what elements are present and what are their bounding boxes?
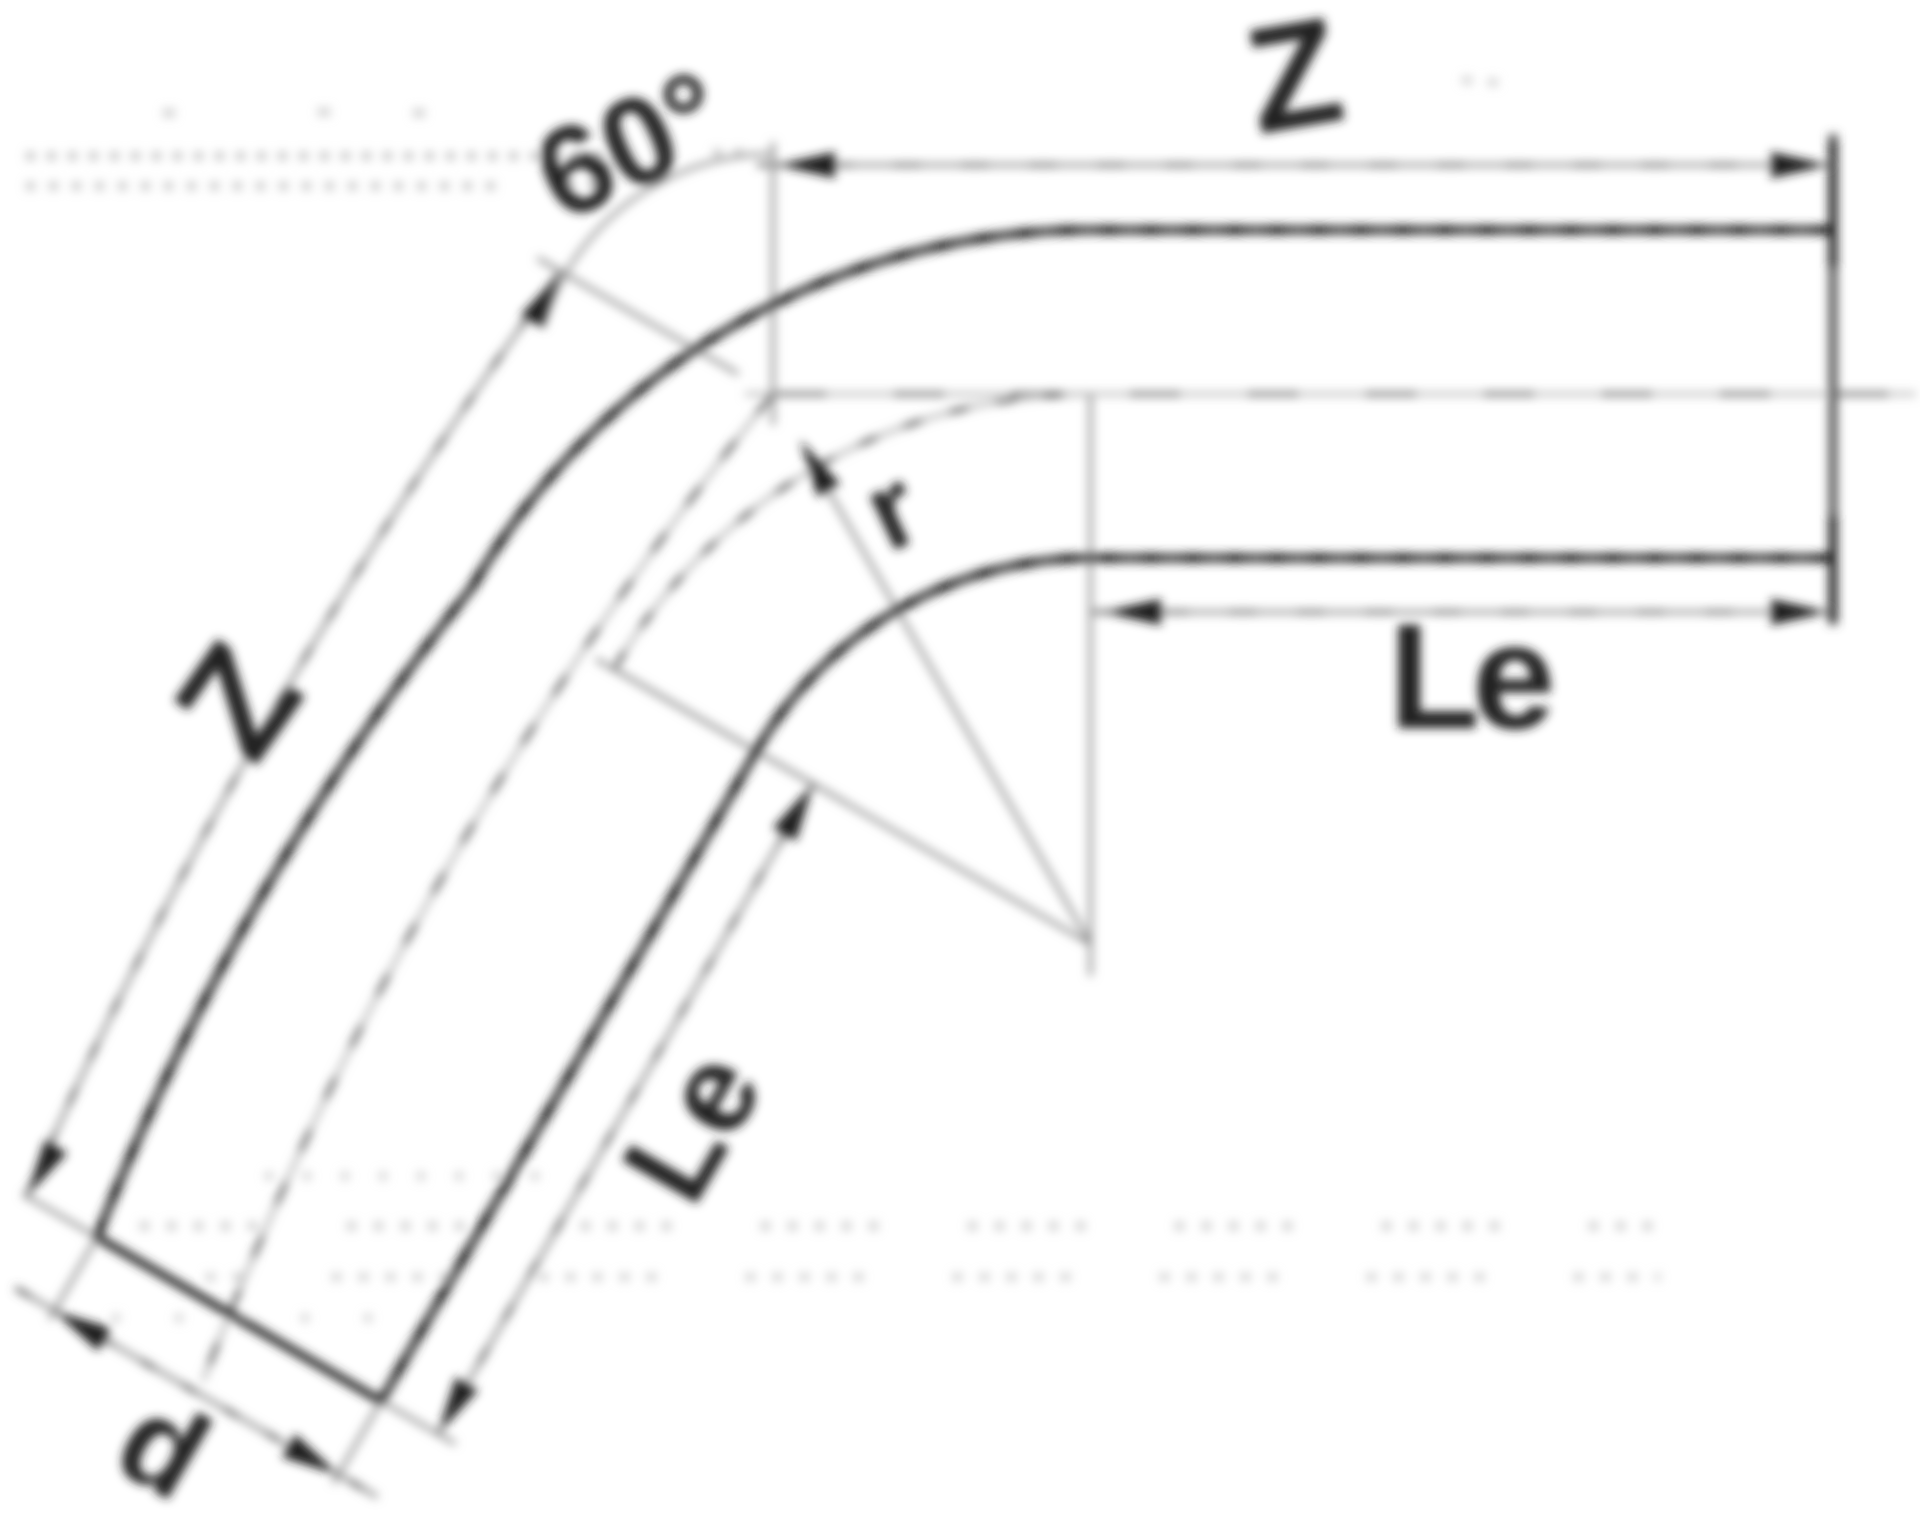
watermark dots near Z <box>1462 80 1502 83</box>
extension line at P for Z left <box>537 258 738 374</box>
watermark dot row bottom 1 <box>265 1172 545 1180</box>
left pipe centerline <box>203 394 773 1381</box>
watermark dot row bottom 3 <box>205 1273 1660 1281</box>
inner edge extension past cap <box>334 1401 382 1483</box>
svg-text:r: r <box>846 443 938 575</box>
arrow d inner <box>282 1434 339 1475</box>
dimension Le right line <box>1093 610 1831 615</box>
outer edge extension past cap <box>50 1237 98 1319</box>
svg-text:Le: Le <box>596 1028 789 1224</box>
arrow r at arc <box>800 440 840 497</box>
end cap extension inner <box>381 1401 456 1444</box>
horizontal centerline <box>745 392 1916 397</box>
pipe inner edge <box>381 558 1834 1401</box>
arrow Z left bottom <box>27 1140 67 1196</box>
dimension Le left line <box>438 784 813 1434</box>
extension line at tangent T2 (vertical to arc center) <box>1088 394 1093 976</box>
left end cap <box>97 1237 381 1401</box>
svg-text:Le: Le <box>1388 592 1551 760</box>
extension line at T1 for Le left <box>614 669 846 803</box>
dimension Z left line <box>27 272 561 1197</box>
pipe inner edge dark beads <box>381 558 1834 1401</box>
svg-text:Z: Z <box>142 614 335 788</box>
watermark dot row top C <box>26 182 500 190</box>
arrow Z left top <box>521 272 561 328</box>
watermark dot row top A <box>163 109 175 117</box>
extension line at corner P <box>771 142 776 425</box>
svg-text:60°: 60° <box>516 44 745 248</box>
watermark dot row bottom 4 <box>112 1314 430 1322</box>
svg-text:Z: Z <box>1234 0 1353 166</box>
radius line to tangent T1 <box>596 659 1091 944</box>
60 degree angle arc <box>542 154 773 328</box>
arrow d outer <box>54 1311 111 1351</box>
arrow Le right rightend <box>1771 599 1829 625</box>
arrow Z top left <box>777 152 835 178</box>
arrow Le left bottom <box>438 1377 478 1434</box>
pipe outer edge <box>97 230 1834 1237</box>
end cap extension outer <box>23 1194 98 1237</box>
arrow Le left top <box>773 784 813 841</box>
pipe outer edge dark beads <box>97 230 1834 1237</box>
dimension Z top line <box>757 163 1831 168</box>
bend centerline arc <box>614 394 1090 669</box>
svg-text:d: d <box>95 1368 231 1525</box>
right end cap <box>1829 134 1838 625</box>
arrow Z top right <box>1771 152 1829 178</box>
watermark dot row top B <box>26 152 612 160</box>
radius line r from center V <box>806 452 1091 944</box>
arrow Le right leftend <box>1103 599 1161 625</box>
dimension d line <box>16 1288 378 1497</box>
watermark dot row bottom 2 <box>140 1222 1670 1230</box>
